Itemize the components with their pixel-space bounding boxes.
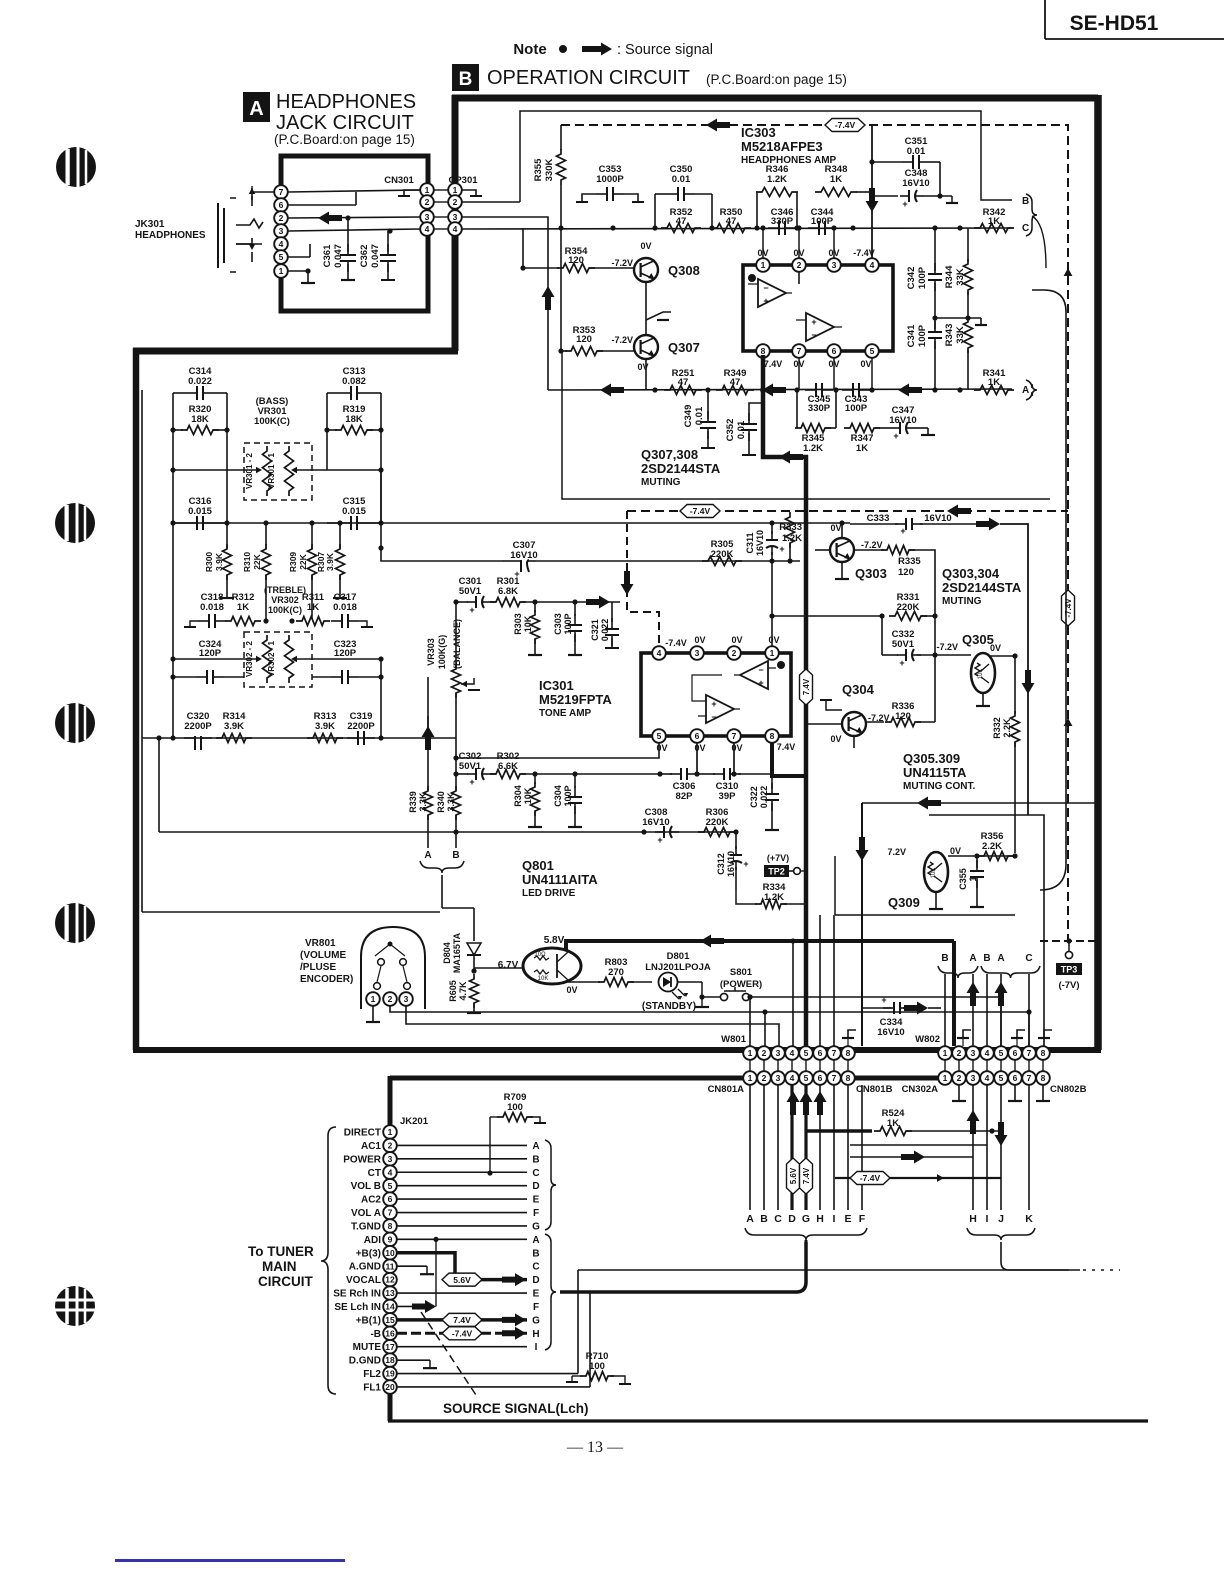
svg-text:4: 4 [279, 239, 284, 249]
label CN301 [384, 175, 414, 186]
svg-text:4: 4 [657, 648, 662, 658]
svg-text:100K(C): 100K(C) [254, 416, 290, 427]
brace under CN302A letters [967, 1228, 1035, 1240]
svg-text:R310: R310 [242, 552, 252, 573]
svg-text:OPERATION CIRCUIT: OPERATION CIRCUIT [487, 67, 690, 89]
IC303 pin 2 [792, 258, 806, 272]
svg-text:2: 2 [762, 1073, 767, 1083]
svg-text:7.4V: 7.4V [453, 1315, 471, 1325]
CN801A pin 1 [743, 1071, 757, 1085]
svg-text:(POWER): (POWER) [720, 979, 762, 990]
svg-text:R332: R332 [992, 717, 1002, 739]
JK201 pin 11 A.GND [349, 1259, 397, 1273]
svg-text:0.015: 0.015 [342, 506, 366, 517]
lower connector box border [388, 1076, 1148, 1421]
capacitor C306 82P [660, 743, 700, 802]
svg-text:2: 2 [453, 197, 458, 207]
Q307/Q308 device designation [641, 447, 721, 488]
wire MUTE [397, 1346, 527, 1348]
wire W801 pin6 up [819, 915, 821, 1046]
resistor R313 3.9K [307, 711, 343, 743]
svg-text:(P.C.Board:on page 15): (P.C.Board:on page 15) [274, 132, 415, 147]
W801 pin 4 [785, 1046, 799, 1060]
svg-text:100: 100 [507, 1102, 523, 1113]
svg-text:120P: 120P [199, 648, 222, 659]
svg-text:G: G [532, 1315, 540, 1326]
svg-text:: Source signal: : Source signal [617, 42, 713, 58]
svg-text:5.6V: 5.6V [453, 1275, 471, 1285]
svg-text:+B(3): +B(3) [356, 1248, 381, 1259]
svg-text:-7.4V: -7.4V [853, 248, 875, 258]
thick 5.8V rail [566, 935, 954, 1047]
svg-text:4: 4 [453, 224, 458, 234]
CN302A pin 3 [966, 1071, 980, 1085]
svg-text:2: 2 [388, 1141, 393, 1151]
JK201 pin 10 +B(3) [356, 1246, 397, 1260]
svg-text:CN302A: CN302A [902, 1084, 939, 1095]
svg-text:2: 2 [732, 648, 737, 658]
capacitor C342 100P [906, 228, 942, 318]
wire A.GND ground [397, 1266, 434, 1274]
wire C311 rail to IC301 pin1 [769, 561, 774, 653]
IC303 designation [741, 125, 837, 166]
svg-text:HEADPHONES: HEADPHONES [135, 230, 206, 241]
VR301 dashed box [244, 443, 312, 500]
svg-text:IC301: IC301 [539, 678, 574, 693]
capacitor C308 16V10 [642, 807, 679, 845]
svg-text:4: 4 [790, 1048, 795, 1058]
svg-text:-7.4V: -7.4V [860, 1173, 881, 1183]
CN301 pin 1 [420, 183, 434, 197]
wire CN801 B down [763, 1085, 765, 1210]
svg-text:R309: R309 [288, 552, 298, 573]
svg-text:100P: 100P [917, 266, 928, 289]
JK201 pin 12 VOCAL [346, 1273, 397, 1287]
svg-text:4: 4 [790, 1073, 795, 1083]
letter C under CN801 [774, 1213, 782, 1225]
svg-text:18K: 18K [345, 414, 363, 425]
svg-text:-7.4V: -7.4V [452, 1329, 473, 1339]
wire W801 pin7 up [833, 915, 835, 1046]
svg-text:0.01: 0.01 [907, 146, 926, 157]
IC303 pin voltage labels bottom [764, 359, 872, 369]
Q801 designation [522, 858, 598, 899]
resistor R311 1K [289, 592, 330, 626]
JK301 pin 7 [274, 185, 288, 199]
svg-text:270: 270 [608, 967, 624, 978]
svg-text:22K: 22K [298, 553, 308, 569]
IC301 pin stubs down [697, 743, 734, 774]
capacitor C317 0.018 [331, 592, 373, 628]
resistor R349 47 [716, 368, 754, 395]
thick wire +B(3) [397, 1253, 455, 1280]
svg-text:(P.C.Board:on page 15): (P.C.Board:on page 15) [706, 72, 847, 87]
JK201 pin 13 SE Rch IN [333, 1286, 397, 1300]
wire mute rail y=803 [856, 797, 1096, 1047]
capacitor C352 0.01 [725, 403, 763, 455]
label JK301 HEADPHONES [135, 219, 206, 241]
label CP301 [448, 175, 478, 186]
svg-text:B: B [1022, 196, 1029, 207]
resistor R306 220K [698, 807, 736, 837]
JK201 pin 6 AC2 [361, 1192, 397, 1206]
svg-text:19: 19 [385, 1369, 395, 1379]
svg-text:C361: C361 [322, 244, 333, 267]
svg-text:— 13 —: — 13 — [566, 1439, 624, 1456]
svg-text:B: B [532, 1154, 539, 1165]
svg-text:3: 3 [404, 994, 409, 1004]
Q303/Q304 designation [942, 566, 1022, 607]
wire pin3 to CN301 pin4 [288, 228, 420, 233]
VR302 dashed box [244, 632, 312, 687]
resistor R336 120 [866, 616, 935, 727]
wire D.GND ground [397, 1360, 437, 1368]
resistor R310 22K [242, 544, 271, 619]
CP301 pin1 ground bracket [462, 190, 482, 196]
capacitor C312 16V10 [716, 832, 749, 890]
svg-text:5: 5 [388, 1181, 393, 1191]
CN302A pin 4 [980, 1071, 994, 1085]
W801 pin 1 [743, 1046, 757, 1060]
JK201 pin 2 AC1 [361, 1139, 397, 1153]
resistor R709 100 [487, 1092, 546, 1176]
wire CN801 D down [790, 1085, 793, 1210]
capacitor C301 50V1 [456, 576, 496, 615]
svg-text:−: − [711, 712, 716, 722]
svg-text:13: 13 [385, 1288, 395, 1298]
switch S801 POWER [720, 967, 762, 1001]
svg-text:10K: 10K [538, 976, 549, 982]
svg-text:4: 4 [870, 260, 875, 270]
svg-text:3: 3 [388, 1154, 393, 1164]
source arrow on dashed bus [706, 119, 730, 132]
potentiometer VR301-1 [267, 446, 294, 496]
wire VR302 left vertical low [170, 674, 175, 738]
brace first letter group [545, 1140, 556, 1230]
svg-text:−: − [811, 330, 816, 340]
svg-text:C362: C362 [359, 245, 370, 268]
svg-text:A: A [532, 1141, 539, 1152]
wire bass bus y=738 [142, 735, 456, 740]
svg-text:7.4V: 7.4V [777, 742, 796, 752]
IC303 package box [743, 265, 893, 351]
svg-text:1: 1 [371, 994, 376, 1004]
svg-text:11: 11 [386, 1261, 395, 1271]
svg-text:7: 7 [388, 1208, 393, 1218]
connector row CN801B label [856, 1084, 893, 1095]
letter D second group [532, 1275, 539, 1286]
resistor R301 6.8K [453, 576, 620, 607]
svg-text:50V1: 50V1 [459, 761, 482, 772]
svg-text:7: 7 [279, 187, 284, 197]
wire CN801 C down [777, 1085, 779, 1210]
svg-text:C303: C303 [553, 613, 563, 635]
label net C [1022, 223, 1029, 234]
svg-text:0V: 0V [640, 241, 651, 251]
svg-text:22K: 22K [252, 553, 262, 569]
wire pin7 to CN301 pin1 [288, 190, 420, 192]
svg-text:FL1: FL1 [363, 1382, 381, 1393]
svg-text:3.9K: 3.9K [315, 721, 335, 732]
svg-text:+: + [811, 317, 816, 327]
wire pin6 up [288, 192, 356, 205]
svg-text:3: 3 [971, 1048, 976, 1058]
svg-text:39P: 39P [719, 791, 737, 802]
svg-text:VR801: VR801 [305, 938, 336, 949]
svg-text:JK301: JK301 [135, 219, 165, 230]
svg-text:C352: C352 [725, 419, 736, 442]
CP301 pin 3 [448, 210, 462, 224]
svg-text:I: I [986, 1213, 989, 1225]
letter I under CN302A [986, 1213, 989, 1225]
resistor R305 220K [702, 539, 742, 566]
JK201 pin 18 D.GND [349, 1353, 397, 1367]
net B C brace [1026, 194, 1037, 236]
svg-text:4: 4 [985, 1073, 990, 1083]
svg-text:SE-HD51: SE-HD51 [1070, 12, 1159, 35]
letter I under CN801 [833, 1213, 836, 1225]
wire JK201 to G [397, 1225, 527, 1227]
arrow up on right dashed bus lower [1064, 718, 1073, 726]
svg-text:+: + [900, 526, 905, 536]
resistor R348 1K [815, 164, 872, 197]
svg-text:5: 5 [279, 252, 284, 262]
potentiometer VR301-2 [245, 446, 272, 496]
svg-text:D: D [532, 1181, 539, 1192]
CN302A pin 7 [1022, 1071, 1036, 1085]
wire C315 right rail [380, 430, 382, 548]
letter H under CN801 [816, 1213, 824, 1225]
svg-text:2200P: 2200P [184, 721, 212, 732]
capacitor C347 16V10 [875, 405, 935, 441]
svg-text:82P: 82P [676, 791, 694, 802]
svg-text:Q307: Q307 [668, 340, 700, 355]
wire y=815 Q309 top [929, 815, 1044, 1046]
source arrow mid bus [947, 505, 971, 518]
svg-text:F: F [533, 1302, 539, 1313]
CN302A pin 1 [938, 1071, 952, 1085]
braces under BABAC [938, 966, 1040, 978]
letter C second group [532, 1262, 539, 1273]
IC303 pin 1 [756, 258, 770, 272]
svg-text:8: 8 [846, 1048, 851, 1058]
svg-text:0V: 0V [731, 635, 742, 645]
CN801A pin 3 [771, 1071, 785, 1085]
svg-text:0.047: 0.047 [370, 244, 381, 268]
W802 pin 4 [980, 1046, 994, 1060]
svg-text:MUTING CONT.: MUTING CONT. [903, 781, 975, 792]
svg-text:MA165TA: MA165TA [452, 932, 462, 973]
svg-text:UN4115TA: UN4115TA [903, 765, 967, 780]
label STANDBY [642, 1001, 696, 1012]
svg-text:9: 9 [388, 1234, 393, 1244]
resistor R710 100 [566, 1351, 631, 1384]
section label A HEADPHONES JACK CIRCUIT [243, 91, 416, 147]
wire SE Lch IN arrow [397, 1300, 436, 1313]
voltage diamond -7.4V mid bus [680, 505, 720, 518]
svg-text:8: 8 [846, 1073, 851, 1083]
svg-text:K: K [1025, 1213, 1033, 1225]
resistor R302 6.6K [490, 751, 663, 779]
wire W801 pin1 up [747, 994, 752, 1046]
svg-text:1.2K: 1.2K [803, 443, 823, 454]
svg-text:16V10: 16V10 [510, 550, 537, 561]
svg-text:+: + [779, 544, 784, 554]
svg-text:−: − [758, 665, 763, 675]
svg-text:MUTING: MUTING [942, 596, 982, 607]
JK201 pin 20 FL1 [363, 1380, 397, 1394]
svg-text:16V10: 16V10 [889, 415, 916, 426]
IC301 pin1 dot [777, 661, 785, 669]
svg-text:-7.4V: -7.4V [665, 638, 687, 648]
svg-text:R344: R344 [944, 265, 955, 288]
section B outer border [133, 95, 1101, 1050]
pin links W802-CN302A [945, 1060, 1043, 1071]
IC303 pin 5 [865, 344, 879, 358]
svg-text:B: B [459, 69, 473, 90]
svg-text:100K(G): 100K(G) [437, 635, 447, 670]
wire D804 to Q801 transistor [474, 967, 524, 969]
wire JK201 to B [397, 1158, 527, 1160]
capacitor C355 [958, 856, 984, 907]
wire pin2 to CN301 pin3 [288, 215, 420, 220]
capacitor C323 120P [312, 639, 381, 684]
svg-text:F: F [859, 1213, 866, 1225]
svg-text:TONE AMP: TONE AMP [539, 708, 592, 719]
svg-text:7: 7 [1027, 1073, 1032, 1083]
svg-text:50V1: 50V1 [459, 586, 482, 597]
JK301 pin 1 [274, 264, 288, 278]
CN301 pin 3 [420, 210, 434, 224]
letter B under CN801 [760, 1213, 768, 1225]
svg-text:16: 16 [385, 1328, 395, 1338]
wire y=523 upper net [381, 520, 850, 525]
svg-text:1: 1 [770, 648, 775, 658]
svg-text:1K: 1K [307, 602, 319, 613]
wire y=1178 -7.4V [835, 1172, 1001, 1185]
pin links W801-CN801A [750, 1060, 848, 1071]
JK201 spine [388, 1085, 392, 1421]
svg-text:Q303: Q303 [855, 566, 887, 581]
RC box1 verticals [170, 393, 229, 470]
svg-text:Q303,304: Q303,304 [942, 566, 1000, 581]
svg-text:8: 8 [1041, 1048, 1046, 1058]
thick wire VOCAL 5.6V [442, 1273, 527, 1286]
wire CN801 G down [804, 1085, 807, 1210]
diode D804 MA165TA [442, 908, 481, 974]
svg-text:2SD2144STA: 2SD2144STA [942, 580, 1022, 595]
resistor R333 1.2K [779, 511, 802, 561]
CN301 pin 2 [420, 195, 434, 209]
svg-text:2: 2 [762, 1048, 767, 1058]
dashed drop to IC301 pin4 [621, 511, 660, 647]
capacitor C311 16V10 [745, 523, 785, 561]
svg-text:R343: R343 [944, 324, 955, 347]
svg-text:7: 7 [832, 1048, 837, 1058]
wire CN801 I down [833, 1085, 835, 1210]
svg-text:2.2K: 2.2K [982, 841, 1002, 852]
label C318 value [200, 602, 224, 613]
LED drive A B labels [424, 850, 459, 861]
W802 pin 5 [994, 1046, 1008, 1060]
svg-text:3: 3 [425, 212, 430, 222]
wire branch to IC303 pin4 [866, 125, 879, 258]
svg-text:A: A [969, 953, 976, 964]
CN801A pin 8 [841, 1071, 855, 1085]
svg-text:R335: R335 [898, 556, 921, 567]
connector row W802 [915, 1034, 940, 1045]
wire CN801 F down [861, 1085, 863, 1210]
svg-text:1: 1 [761, 260, 766, 270]
svg-text:TP3: TP3 [1061, 965, 1078, 975]
svg-text:0V: 0V [830, 734, 841, 744]
svg-text:R340: R340 [436, 791, 446, 813]
svg-text:C349: C349 [683, 405, 694, 428]
svg-text:C311: C311 [745, 532, 755, 553]
svg-text:1K: 1K [887, 1118, 899, 1129]
letter A second group [532, 1235, 539, 1246]
wire from HIJK brace [1001, 1242, 1069, 1270]
svg-text:D804: D804 [442, 942, 452, 964]
IC301 pin voltage labels bottom [656, 742, 795, 753]
JK201 pin 19 FL2 [363, 1367, 397, 1381]
svg-text:0V: 0V [757, 248, 768, 258]
capacitor C314 0.022 [173, 366, 227, 400]
wire VR801 pin2 out [390, 1006, 768, 1046]
CN302A pin 8 [1036, 1071, 1050, 1085]
capacitor C345 330P [805, 383, 833, 414]
binding hole 4 [55, 903, 95, 943]
svg-text:1: 1 [943, 1048, 948, 1058]
potentiometer VR303 balance [426, 602, 480, 758]
svg-text:DIRECT: DIRECT [344, 1128, 381, 1139]
letter K under CN302A [1025, 1213, 1033, 1225]
svg-text:1: 1 [388, 1127, 393, 1137]
resistor R344 33K [944, 228, 973, 318]
IC303 pin 7 [792, 344, 806, 358]
svg-text:A: A [746, 1213, 754, 1225]
resistor R339 3.3K [408, 677, 435, 848]
svg-text:18: 18 [385, 1355, 395, 1365]
svg-text:3: 3 [453, 212, 458, 222]
svg-text:To TUNER: To TUNER [248, 1244, 314, 1259]
svg-text:1.2K: 1.2K [767, 174, 787, 185]
JK201 pin 3 POWER [343, 1152, 397, 1166]
svg-text:POWER: POWER [343, 1154, 382, 1165]
svg-text:M5219FPTA: M5219FPTA [539, 692, 612, 707]
binding hole 3 [55, 703, 95, 743]
svg-text:C: C [774, 1213, 782, 1225]
IC301 pin 3 [690, 646, 704, 660]
svg-text:1K: 1K [830, 174, 842, 185]
svg-text:+B(1): +B(1) [356, 1315, 381, 1326]
svg-text:6: 6 [695, 731, 700, 741]
svg-text:2: 2 [957, 1048, 962, 1058]
resistor R352 47 [661, 207, 701, 233]
svg-text:VOL B: VOL B [351, 1181, 381, 1192]
svg-text:4: 4 [388, 1167, 393, 1177]
source signal callout [421, 1312, 478, 1398]
svg-text:A: A [1022, 385, 1029, 396]
svg-text:2: 2 [388, 994, 393, 1004]
ground step above CN802B pin8 [1038, 1030, 1052, 1046]
source arrow tone out [586, 596, 610, 609]
CN801A pin 4 [785, 1071, 799, 1085]
JK201 pin 9 ADI [364, 1233, 397, 1247]
svg-text:330P: 330P [771, 216, 794, 227]
svg-text:6: 6 [818, 1073, 823, 1083]
svg-text:20: 20 [385, 1382, 395, 1392]
